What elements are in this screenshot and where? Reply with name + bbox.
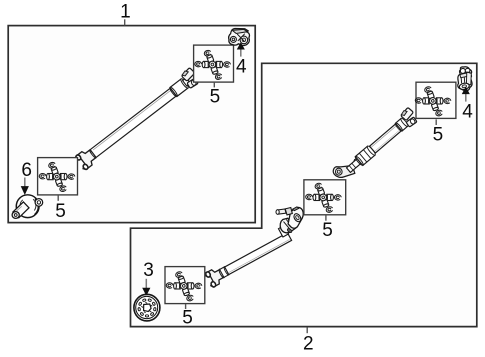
svg-text:5: 5: [55, 201, 66, 222]
u-joint kit 5 (lower, box 1): [39, 162, 75, 193]
svg-text:5: 5: [322, 220, 333, 241]
u-joint kit box 5 (bottom arm): [165, 267, 205, 304]
arrow for label 3: [143, 279, 150, 295]
arrow for label 6: [22, 178, 29, 194]
u-joint kit box 5 (upper, box 2): [416, 82, 456, 118]
svg-text:5: 5: [433, 124, 444, 145]
svg-text:5: 5: [182, 308, 193, 329]
front shaft slip-yoke end fork: [74, 147, 97, 170]
rear yoke ears: [399, 107, 420, 128]
svg-text:2: 2: [303, 333, 314, 354]
splined stub: [347, 159, 362, 173]
upper yoke half: [288, 207, 303, 228]
damper 3: [134, 294, 160, 321]
u-joint kit box 5 (upper, box 1): [194, 45, 234, 82]
svg-text:1: 1: [120, 1, 131, 22]
svg-text:3: 3: [143, 260, 154, 281]
slip yoke 6 stub: [13, 202, 29, 218]
clamp horn fitting: [277, 209, 286, 214]
slip yoke 6 ear: [35, 199, 43, 207]
slip yoke lug: [333, 160, 359, 178]
rear driveshaft front section (in bottom arm of box 2): [204, 229, 293, 288]
flange yoke 4 (box 1): [229, 29, 250, 46]
front shaft tube: [89, 149, 97, 159]
leader tick for label 5 (lower, box 1): [57, 195, 59, 201]
rear driveshaft rear section: [333, 107, 419, 178]
front shaft yoke ears: [180, 67, 201, 89]
tube: [225, 233, 292, 275]
leader tick for label 5 (upper, box 2): [435, 119, 437, 125]
bearing cup ring: [293, 212, 303, 222]
u-joint kit 5 (centre, box 2): [305, 182, 341, 213]
svg-text:5: 5: [210, 86, 221, 107]
u-joint kit box 5 (lower, box 1): [38, 158, 78, 195]
leader tick for label 5 (bottom arm): [185, 304, 187, 309]
flange yoke 4 (box 2): [458, 67, 472, 91]
svg-text:4: 4: [462, 101, 473, 122]
leader tick for label 5 (upper, box 1): [213, 82, 215, 87]
leader tick for label 1: [124, 19, 126, 25]
collar rings: [355, 146, 375, 165]
tube: [370, 124, 402, 153]
u-joint kit 5 (upper, box 1): [195, 49, 231, 80]
callout box 2 (rear driveshaft, L-shaped): [131, 63, 477, 326]
front driveshaft assembly: [74, 67, 202, 171]
front yoke fork: [204, 267, 225, 288]
arrow for label 4 (box 1): [238, 43, 244, 56]
callout box 1 (front driveshaft): [8, 26, 255, 223]
u-joint kit 5 (upper, box 2): [415, 86, 451, 117]
slip yoke 6: [12, 195, 43, 219]
dark lower tip: [287, 228, 293, 233]
lower fork half: [280, 218, 295, 233]
arrow for label 4 (box 2): [463, 88, 469, 102]
u-joint kit 5 (bottom arm): [166, 271, 202, 302]
svg-text:4: 4: [236, 56, 247, 77]
leader tick for label 2: [306, 327, 308, 333]
end collar: [395, 118, 407, 131]
svg-text:6: 6: [21, 160, 32, 181]
centre joint clamp yoke cluster: [276, 207, 303, 237]
tube weld band: [218, 268, 225, 278]
front shaft neck: [183, 78, 191, 86]
weld band at tube end: [278, 226, 288, 237]
front shaft collar: [170, 79, 188, 97]
u-joint kit box 5 (centre, box 2): [304, 180, 346, 215]
leader tick for label 5 (centre, box 2): [325, 215, 327, 220]
